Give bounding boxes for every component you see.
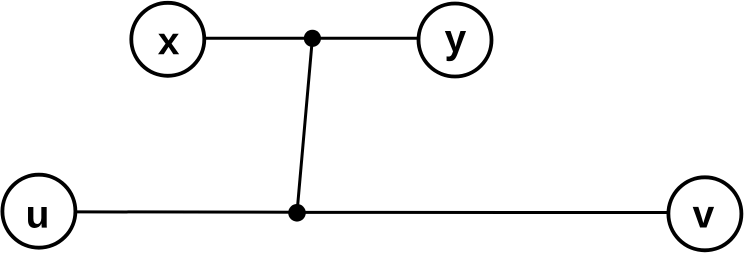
node v (668, 177, 741, 250)
wire top junction to y (312, 37, 455, 40)
node y (419, 4, 492, 77)
node u (2, 175, 75, 248)
wire x to top junction (168, 37, 313, 40)
wire top junction to bottom junction (297, 38, 312, 212)
node junction top (304, 30, 321, 47)
node x (131, 3, 204, 76)
node junction bottom (288, 204, 306, 222)
wire bottom junction to v (297, 211, 705, 214)
wire u to bottom junction (39, 210, 297, 213)
